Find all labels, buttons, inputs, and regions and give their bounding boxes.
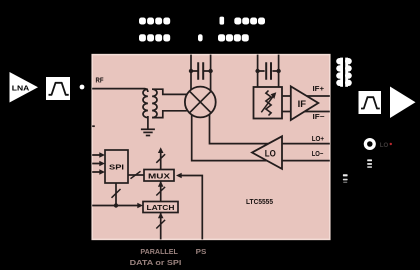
svg-text:IF−: IF− (313, 112, 325, 121)
svg-text:SPI: SPI (109, 163, 124, 172)
svg-text:LO−: LO− (312, 149, 324, 158)
svg-text:DATA or SPI: DATA or SPI (130, 260, 182, 267)
svg-text:RF: RF (96, 78, 105, 85)
svg-text:LNA: LNA (12, 84, 30, 93)
svg-text:LO: LO (380, 142, 389, 149)
svg-text:LO+: LO+ (312, 134, 324, 143)
svg-text:LTC5555: LTC5555 (246, 197, 273, 206)
svg-text:LO: LO (265, 147, 276, 158)
svg-text:IF+: IF+ (313, 84, 325, 93)
svg-text:IF: IF (298, 98, 307, 109)
svg-text:PS: PS (196, 249, 207, 256)
svg-text:MUX: MUX (148, 171, 170, 180)
svg-text:LATCH: LATCH (147, 203, 175, 212)
svg-text:PARALLEL: PARALLEL (140, 249, 178, 256)
